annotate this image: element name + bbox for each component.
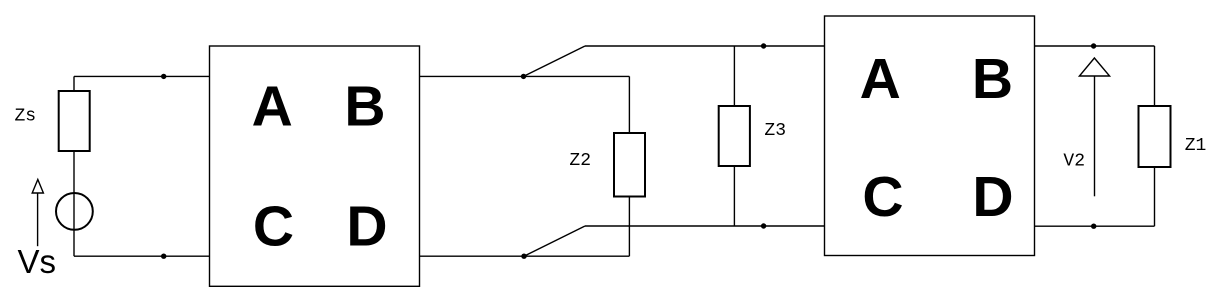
svg-text:A: A xyxy=(860,47,901,111)
wire: bottom rail (y=226) xyxy=(585,225,825,227)
wire: Z2 branch vertical xyxy=(628,76,630,256)
wire: top rail right (box2 to load) xyxy=(1035,45,1155,47)
resistor Z1 xyxy=(1139,106,1171,167)
svg-text:C: C xyxy=(862,165,903,229)
svg-text:B: B xyxy=(972,47,1013,111)
resistor Zs xyxy=(59,91,90,151)
svg-text:Vs: Vs xyxy=(18,243,57,280)
arrow Vs xyxy=(32,180,43,247)
arrow V2 xyxy=(1079,58,1109,196)
wire: bottom rail right (box2 to load) xyxy=(1035,225,1155,227)
junction dot (1093.6,46) xyxy=(1091,43,1096,48)
junction dot (1093.7,226.3) xyxy=(1091,224,1096,229)
wire: diagonal jog top (to upper rail) xyxy=(524,46,586,76)
svg-text:D: D xyxy=(972,165,1013,229)
two-port network box 2 (ABCD) xyxy=(825,16,1035,256)
wire: bottom-left (y=256.2 from branch to box1) xyxy=(74,255,210,257)
svg-text:Z1: Z1 xyxy=(1185,136,1207,156)
junction dot (763.6,226) xyxy=(761,223,766,228)
source Vs (circle symbol) xyxy=(56,193,93,230)
two-port network box 1 (ABCD) xyxy=(210,46,420,286)
svg-text:Z2: Z2 xyxy=(569,151,591,171)
junction dot (163.6,256.2) xyxy=(161,254,166,259)
wire: box1 output top (y=76.4 to Z2 branch) xyxy=(420,75,630,77)
svg-text:D: D xyxy=(346,194,387,258)
wire: top rail (y=46) xyxy=(585,45,825,47)
svg-text:V2: V2 xyxy=(1063,151,1085,171)
resistor Z2 xyxy=(614,133,645,197)
wire: box1 output bottom (y=256.2 to Z2 branch) xyxy=(420,255,630,257)
wire: diagonal jog bottom (to lower rail) xyxy=(524,226,585,256)
junction dot (763.6,46) xyxy=(761,43,766,48)
resistor Z3 xyxy=(719,106,750,166)
wire: source branch vertical (Vs/Zs branch, x=74) xyxy=(73,76,75,256)
svg-text:Zs: Zs xyxy=(15,106,37,126)
junction dot (163.6,76.4) xyxy=(161,74,166,79)
svg-text:B: B xyxy=(344,74,385,138)
svg-text:A: A xyxy=(252,74,293,138)
wire: Z1 branch vertical (x=1154.5) xyxy=(1154,46,1156,226)
svg-text:Z3: Z3 xyxy=(764,121,786,141)
junction dot (523.5,76.4) xyxy=(521,74,526,79)
wire: top-left (y=76.4 from branch to box1) xyxy=(74,75,210,77)
wire: Z3 branch vertical xyxy=(733,46,735,226)
junction dot (524,256.2) xyxy=(521,254,526,259)
svg-text:C: C xyxy=(253,195,294,259)
